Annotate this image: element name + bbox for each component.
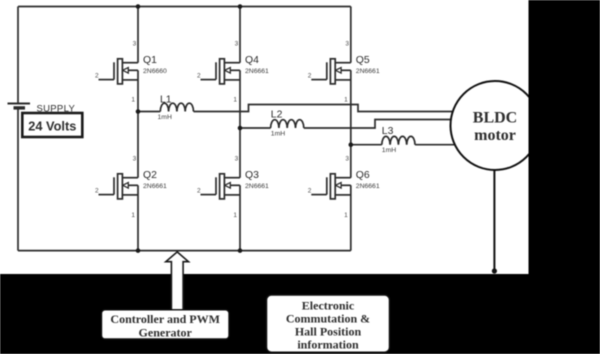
transistor Q4 (197, 40, 269, 103)
transistor Q2 (95, 156, 167, 219)
svg-text:Q6: Q6 (356, 170, 370, 181)
svg-text:1: 1 (233, 96, 237, 103)
svg-text:Q5: Q5 (356, 55, 370, 66)
svg-text:Q4: Q4 (245, 55, 259, 66)
wire column2 source Q3 to bottom bus (239, 185, 241, 250)
svg-text:L1: L1 (160, 94, 172, 105)
wire phase C from node to L3 (351, 144, 382, 146)
wire phase A from node to L1 (138, 111, 160, 113)
junction dot top bus col2 (238, 4, 243, 9)
wire phase B from L2 to motor with jog (304, 120, 452, 129)
svg-text:3: 3 (235, 156, 239, 163)
svg-text:2N6661: 2N6661 (356, 68, 380, 75)
wire column2 drain Q4 (239, 7, 241, 63)
box Electronic Commutation and Hall Position information (267, 295, 390, 352)
junction dot node C (349, 142, 354, 147)
motor wire end dot (492, 268, 497, 273)
svg-text:2: 2 (197, 187, 201, 194)
transistor Q6 (308, 156, 380, 219)
black panel bottom (0, 274, 600, 354)
wire phase B from node to L2 (240, 127, 271, 129)
svg-text:1: 1 (131, 96, 135, 103)
svg-text:2: 2 (197, 72, 201, 79)
svg-text:BLDC: BLDC (473, 110, 517, 127)
box Controller and PWM Generator (102, 310, 230, 340)
inductor L3 (382, 126, 415, 154)
svg-text:2: 2 (95, 187, 99, 194)
transistor Q1 (95, 40, 167, 103)
svg-text:2N6661: 2N6661 (245, 68, 269, 75)
svg-text:1: 1 (131, 212, 135, 219)
junction dot node A (136, 109, 141, 114)
svg-text:3: 3 (133, 156, 137, 163)
wire motor shaft down (493, 170, 495, 271)
svg-text:Q2: Q2 (143, 170, 157, 181)
wire left supply vertical (bottom) (17, 109, 19, 251)
svg-text:1: 1 (233, 212, 237, 219)
arrow from controller to bridge (166, 252, 189, 310)
svg-text:Q1: Q1 (143, 55, 157, 66)
svg-text:1mH: 1mH (158, 114, 172, 121)
wire column3 drain Q5 (350, 7, 352, 63)
svg-text:information: information (297, 337, 359, 351)
wire phase C from L3 to motor (415, 144, 457, 146)
svg-text:1: 1 (344, 212, 348, 219)
svg-text:L2: L2 (271, 109, 283, 120)
svg-text:motor: motor (474, 127, 516, 144)
inductor L1 (158, 94, 194, 121)
svg-text:3: 3 (133, 40, 137, 47)
inductor L2 (271, 109, 304, 137)
svg-text:2N6661: 2N6661 (143, 183, 167, 190)
svg-text:3: 3 (345, 40, 349, 47)
black panel right (529, 0, 600, 354)
svg-text:1mH: 1mH (382, 147, 396, 154)
svg-text:24 Volts: 24 Volts (28, 118, 76, 133)
wire column1 drain Q1 (137, 7, 139, 63)
svg-text:L3: L3 (382, 126, 394, 137)
battery SUPPLY short plate (14, 106, 26, 109)
wire left supply vertical (top) (17, 7, 19, 103)
svg-text:1mH: 1mH (271, 130, 285, 137)
svg-text:3: 3 (235, 40, 239, 47)
svg-text:2N6660: 2N6660 (143, 68, 167, 75)
junction dot bottom bus col2 (238, 248, 243, 253)
transistor Q5 (308, 40, 380, 103)
svg-text:Q3: Q3 (245, 170, 259, 181)
svg-text:2: 2 (308, 72, 312, 79)
svg-text:2N6661: 2N6661 (245, 183, 269, 190)
svg-text:3: 3 (345, 156, 349, 163)
svg-text:2N6661: 2N6661 (356, 183, 380, 190)
junction dot node B (238, 126, 243, 131)
svg-text:Generator: Generator (139, 326, 193, 340)
svg-text:2: 2 (95, 72, 99, 79)
svg-text:Electronic: Electronic (302, 299, 355, 313)
svg-text:Hall Position: Hall Position (295, 324, 362, 338)
wire phase A from L1 to motor with jogs (194, 105, 454, 112)
wire column1 source Q1 to drain Q2 (137, 70, 139, 177)
battery SUPPLY long plate (8, 103, 31, 105)
junction dot top bus col1 (136, 4, 141, 9)
svg-text:2: 2 (308, 187, 312, 194)
transistor Q3 (197, 156, 269, 219)
wire column3 source Q5 to drain Q6 (350, 70, 352, 177)
svg-text:1: 1 (344, 96, 348, 103)
svg-text:Controller and PWM: Controller and PWM (110, 312, 220, 326)
wire top bus (18, 6, 351, 8)
wire column3 source Q6 to bottom bus (350, 185, 352, 250)
box 24 Volts (22, 113, 82, 137)
wire column1 source Q2 to bottom bus (137, 185, 139, 250)
wire bottom bus (18, 250, 351, 252)
svg-text:Commutation &: Commutation & (286, 312, 370, 326)
wire column2 source Q4 to drain Q3 (239, 70, 241, 177)
junction dot bottom bus col1 (136, 248, 141, 253)
BLDC motor circle (451, 81, 540, 170)
